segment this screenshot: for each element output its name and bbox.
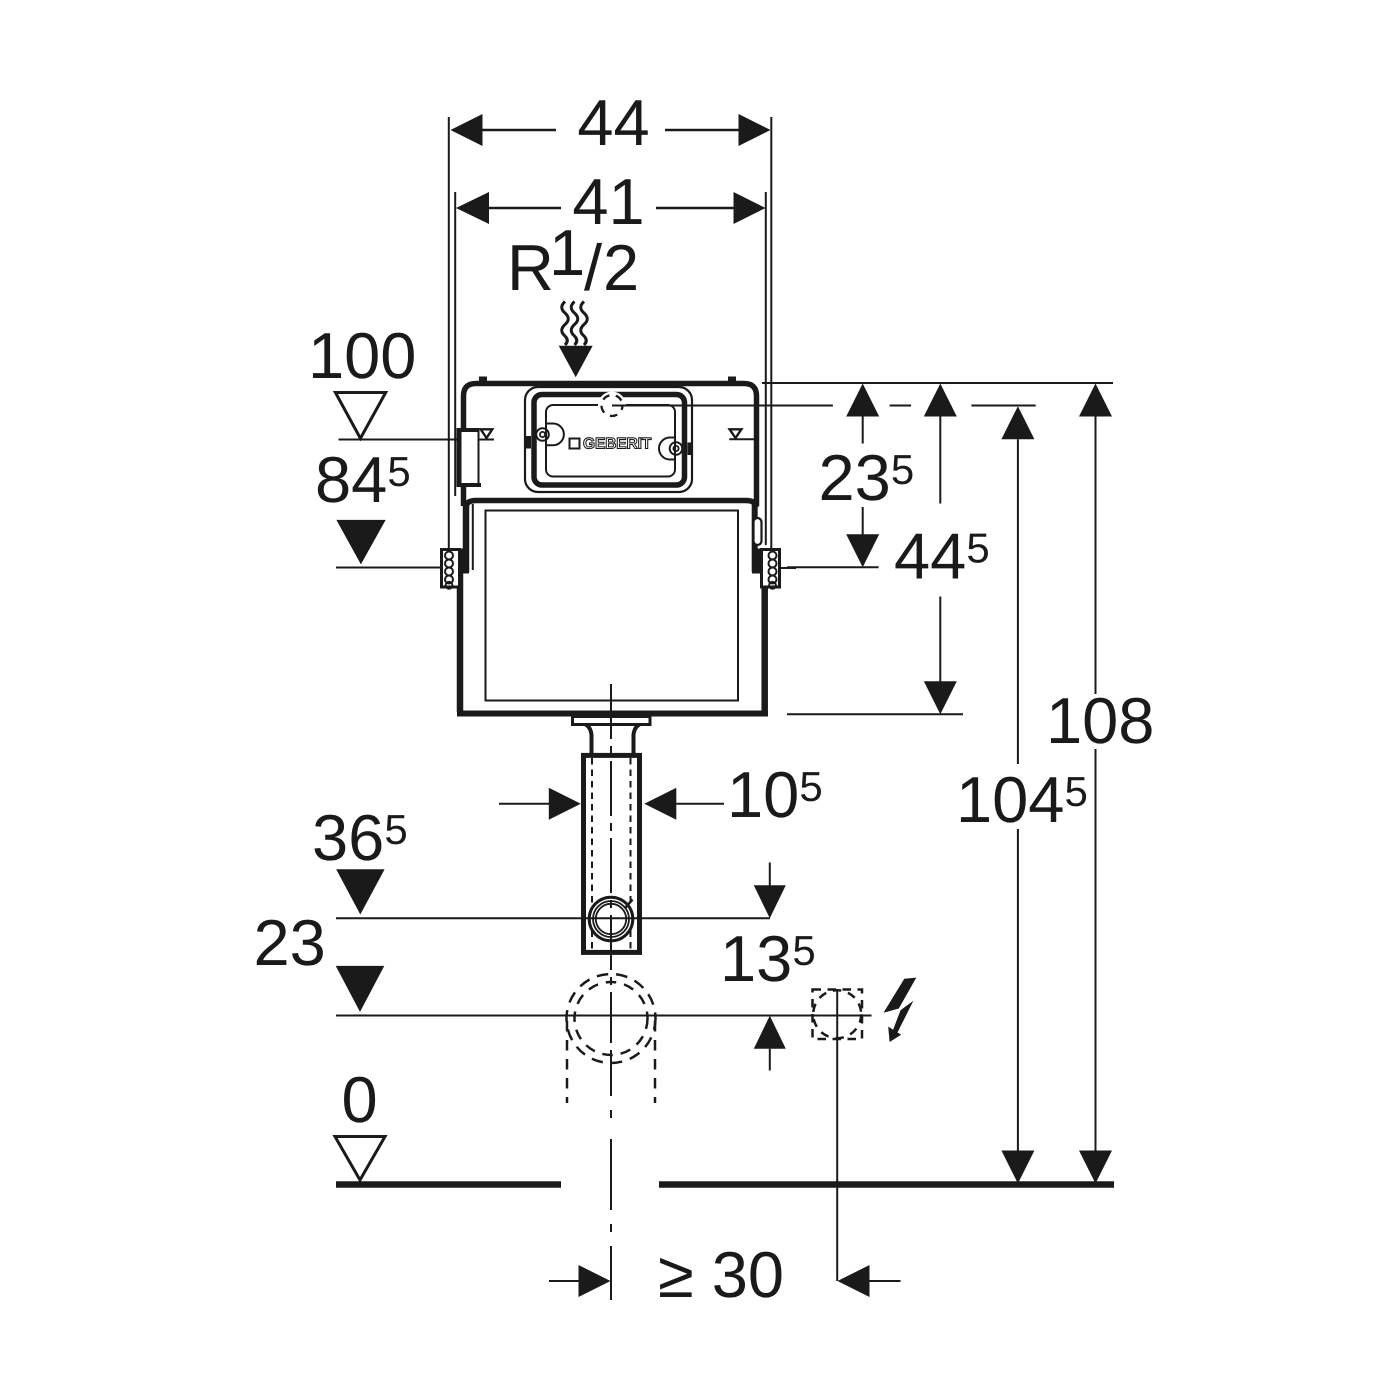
dimension 44 line — [483, 129, 557, 132]
panel push-rod hole mask — [598, 392, 626, 420]
label 0 triangle — [335, 1137, 385, 1181]
panel push-rod hole dashed circle — [602, 395, 623, 416]
level 36.5 line — [336, 917, 770, 919]
tank left wall lower — [457, 570, 464, 712]
dimension 44 arrow left — [451, 114, 483, 146]
drain dashed wall left — [566, 1021, 569, 1103]
tank right wall lower — [761, 570, 768, 712]
access panel inner rect — [546, 405, 675, 477]
cistern top section outline — [464, 384, 757, 507]
water supply arrowhead — [559, 346, 593, 378]
dimension 108 — [1079, 384, 1112, 417]
extension line right (44) — [770, 117, 772, 549]
flush bend flange — [573, 717, 651, 725]
svg-text:R: R — [507, 231, 554, 304]
mounting bracket left — [442, 550, 460, 588]
label 84.5 triangle — [336, 520, 385, 565]
svg-text:2: 2 — [603, 231, 639, 304]
drain dashed circle outer — [567, 974, 656, 1063]
tank left wall upper — [463, 502, 470, 572]
dimension 13.5 — [769, 863, 771, 886]
svg-text:1: 1 — [549, 216, 585, 289]
extension line left (41) — [454, 192, 456, 496]
panel tab left — [546, 424, 564, 446]
fill valve box left — [457, 428, 480, 487]
drain dashed circle inner — [575, 982, 648, 1055]
level 23 line — [336, 1015, 872, 1017]
svg-text:GEBERIT: GEBERIT — [583, 436, 652, 453]
level 100 line — [339, 439, 457, 441]
frame notch left — [526, 436, 531, 449]
panel tab right — [659, 438, 675, 460]
svg-text:108: 108 — [1046, 684, 1154, 757]
wall behind bracket right — [752, 549, 763, 574]
svg-text:100: 100 — [308, 319, 416, 392]
water level mark right line — [729, 438, 757, 440]
svg-text:44: 44 — [577, 86, 649, 159]
svg-text:0: 0 — [342, 1063, 378, 1136]
water level mark right triangle — [730, 429, 742, 438]
center axis line — [610, 684, 612, 1300]
tank left inner wall line — [472, 504, 474, 570]
drain dashed wall right — [654, 1021, 657, 1103]
label 23 triangle — [336, 966, 385, 1012]
tank shoulder — [466, 501, 756, 508]
wall behind bracket left — [458, 549, 469, 574]
bracket right line stub — [781, 567, 797, 569]
water level mark left triangle — [481, 429, 493, 438]
panel screw right — [670, 442, 683, 455]
access panel frame — [534, 395, 685, 486]
svg-text:23: 23 — [254, 906, 326, 979]
dimension 41 arrow right — [734, 192, 766, 224]
dimension >=30 — [549, 1280, 579, 1282]
electrical box dashed circle — [813, 990, 861, 1038]
mounting bracket right — [762, 550, 780, 588]
svg-text:≥ 30: ≥ 30 — [658, 1238, 784, 1311]
dimension 41 line — [489, 207, 561, 210]
frame notch right — [688, 443, 693, 456]
label 100 triangle — [335, 393, 385, 439]
extension line right (41) — [765, 192, 767, 545]
top reference line — [762, 382, 1113, 384]
dimension 104.5 — [1001, 406, 1034, 439]
extension line left (44) — [448, 117, 450, 549]
level 84.5 line — [336, 567, 441, 569]
cistern top tab left — [479, 377, 487, 383]
svg-text:/: / — [584, 231, 603, 304]
dimension 41 arrow left — [456, 192, 489, 224]
panel hole reference line — [612, 405, 833, 407]
dimension 10.5 — [499, 803, 549, 805]
flush bend funnel — [586, 725, 640, 755]
label 36.5 triangle — [336, 869, 384, 914]
outlet connection circles — [589, 897, 633, 941]
flush pipe inner dashed left — [591, 758, 593, 949]
access panel outer rect — [525, 387, 692, 492]
geberit logo square — [570, 439, 580, 449]
water supply squiggle 2 — [571, 302, 578, 346]
flush pipe inner dashed right — [630, 758, 632, 949]
flush pipe — [584, 755, 640, 952]
cistern top tab right — [728, 377, 736, 383]
tank inner rect — [486, 511, 739, 701]
tank right wall upper — [752, 502, 758, 572]
lightning bolt — [884, 978, 917, 1013]
dimension 44.5 — [924, 384, 957, 417]
electrical box dashed square — [813, 990, 863, 1040]
water supply squiggle 3 — [581, 302, 588, 346]
ground line — [336, 1181, 561, 1188]
tank bottom — [457, 711, 768, 717]
dimension 44 arrow right — [739, 114, 771, 146]
water supply squiggle 1 — [562, 302, 569, 346]
electrical supply line — [836, 990, 838, 1282]
panel screw left — [536, 428, 549, 441]
dimension 23.5 — [846, 384, 879, 417]
tank right wall capsule detail — [754, 518, 762, 545]
